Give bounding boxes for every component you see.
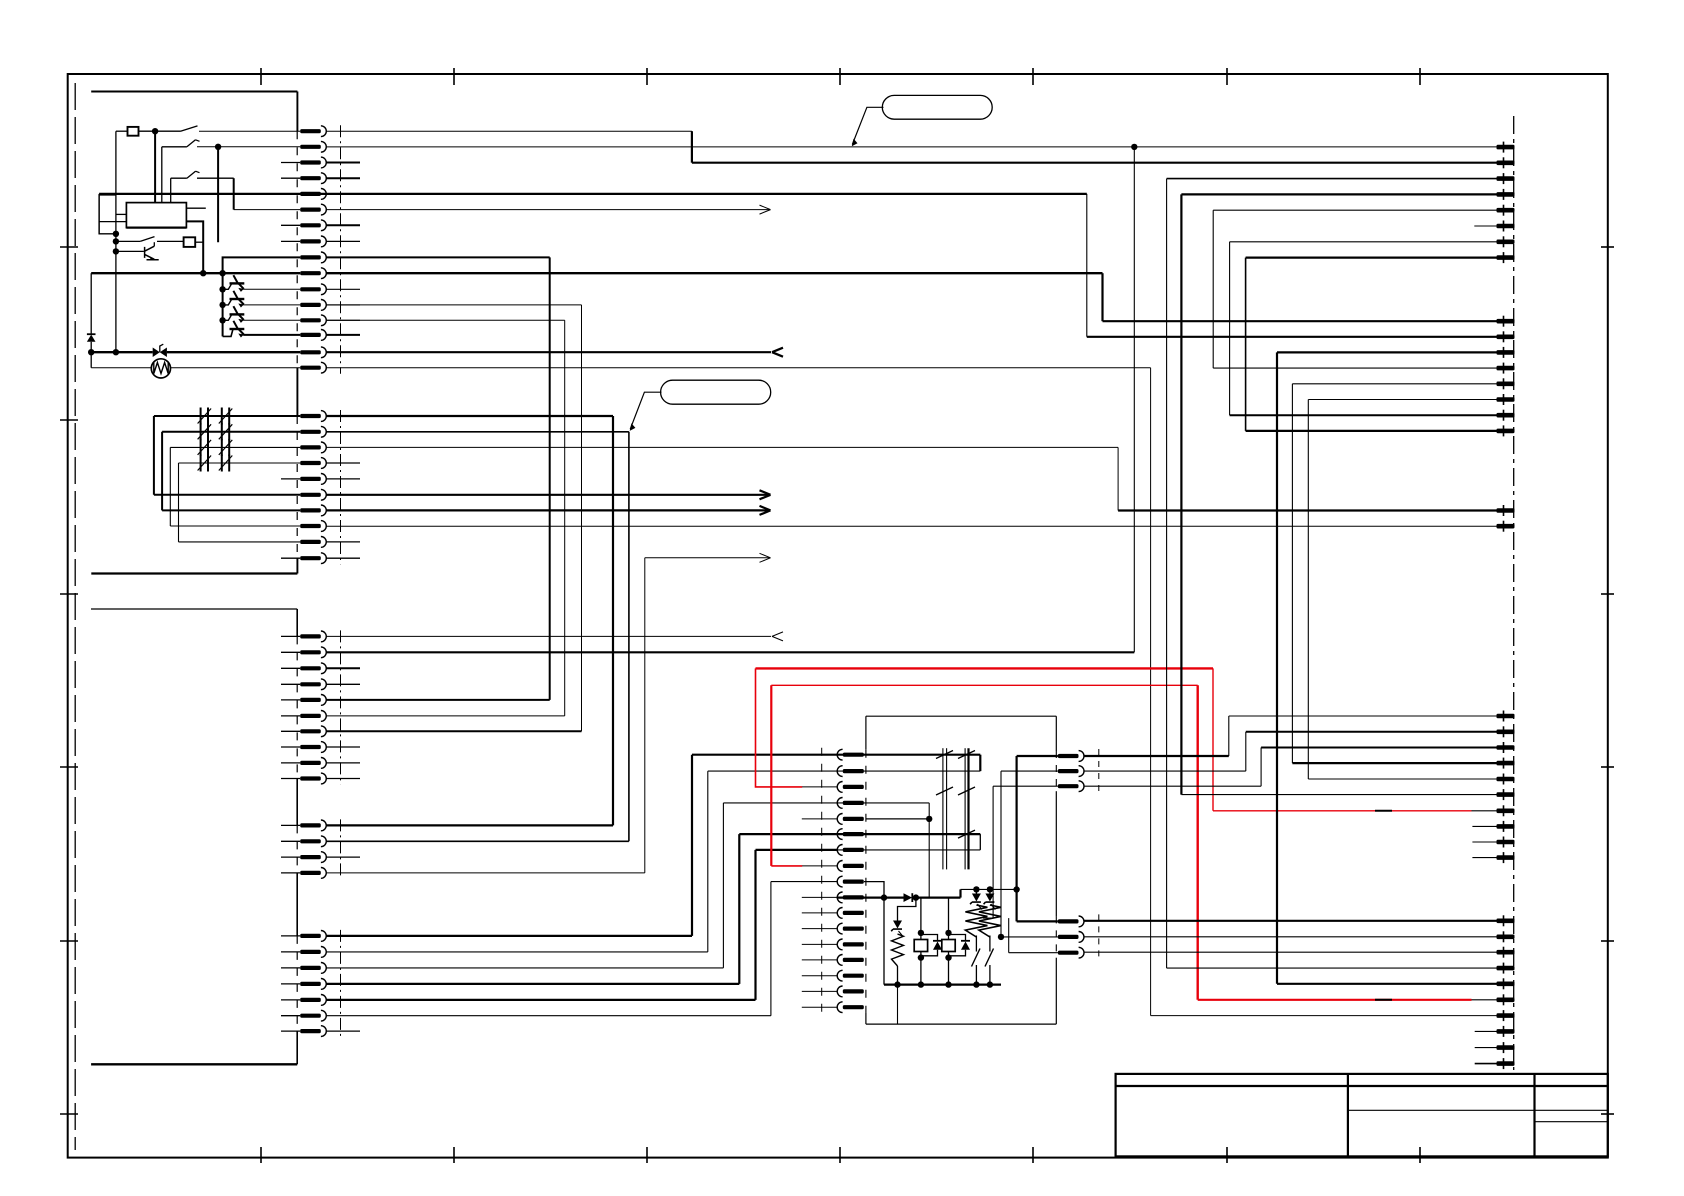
wire stub	[281, 683, 300, 685]
connector CN3 pin 10	[300, 776, 321, 780]
wire stub thick	[326, 162, 360, 164]
junction	[152, 128, 158, 134]
junction on g1r2 line	[1131, 144, 1137, 150]
wire g1r5 thick long	[99, 193, 1087, 195]
diode D4 (flyback)	[961, 942, 970, 950]
emitter lead	[239, 329, 244, 335]
wire motor row	[91, 367, 300, 369]
connector CN5 pin 5	[300, 998, 321, 1002]
middle board connector left pin 3	[843, 785, 864, 789]
right connector B pin 10	[1497, 855, 1515, 860]
wire stub	[802, 975, 837, 977]
right connector A2 pin 1	[1497, 319, 1515, 324]
right connector A2 pin 3	[1497, 350, 1515, 355]
connector CN3 pin 8	[300, 745, 321, 749]
right connector A2 pin 2	[1497, 335, 1515, 340]
connector CN1 pin 3	[300, 160, 321, 164]
right connector C pin 4	[1497, 966, 1515, 971]
wire	[989, 936, 991, 952]
wire g4r2 to pin	[326, 840, 629, 842]
wire g4r1 to pin thick	[326, 824, 613, 826]
wire stub	[326, 304, 360, 306]
wire stub	[326, 762, 360, 764]
wire	[920, 933, 922, 940]
wire g1r13 to vertical	[326, 319, 564, 321]
wire g5 row6 to elbow	[326, 1015, 771, 1017]
vertical A1-8 to A2-8	[1245, 258, 1247, 431]
title block right cell line 2	[1535, 1121, 1608, 1123]
connector CN1 pin 14	[300, 333, 321, 337]
right connector B pin 4	[1497, 761, 1515, 766]
wire to right-pin C5 thick	[1277, 983, 1497, 985]
relay K2 box	[914, 940, 927, 952]
wire g1r10 thick to corner	[326, 272, 1102, 274]
junction	[918, 981, 924, 987]
wire lower right pin3 lead	[1009, 952, 1058, 954]
wire vertical g4r4 up	[644, 558, 646, 873]
right connector C pin 3	[1497, 950, 1515, 955]
wire to right-pin Amid-1 (thick)	[1118, 509, 1496, 511]
wire vertical S1 to relay	[154, 131, 156, 202]
wire g2r1 thick to vertical	[326, 415, 613, 417]
wire stub	[281, 240, 300, 242]
connector CN1 pin 7	[300, 223, 321, 227]
switch S1 blade	[181, 126, 198, 131]
callout 1 leader	[852, 107, 883, 144]
board outline box1 bottom edge	[91, 572, 297, 574]
right connector A1 pin 2	[1497, 161, 1515, 166]
thick vertical R1 to lower R1	[1015, 756, 1017, 921]
right connector B pin 8	[1497, 824, 1515, 829]
wire	[975, 936, 977, 952]
wire to right-pin B6	[1181, 794, 1496, 796]
connector CN2 pin 9	[300, 540, 321, 544]
right connector B pin 5	[1497, 777, 1515, 782]
connector CN2 pin 4	[300, 461, 321, 465]
wire to right-pin A2-8 thick	[1246, 430, 1497, 432]
wire relay pin left upper	[116, 213, 127, 215]
connector CN5 pin 6	[300, 1014, 321, 1018]
wire	[155, 130, 180, 132]
wire rail bottom to Q5 base	[223, 329, 233, 336]
wire L4 drop	[928, 803, 930, 898]
wire A1-4 pin lead thick	[1181, 193, 1496, 195]
right connector A2 pin 4	[1497, 366, 1515, 371]
wire stub thick	[326, 177, 360, 179]
middle-right net R2 wire	[1001, 770, 1058, 772]
bus up to zener rail	[959, 889, 961, 897]
diode D2	[904, 893, 913, 902]
connector CN2 pin 2	[300, 430, 321, 434]
resistor R2	[979, 905, 1001, 937]
wire U to L2	[979, 755, 981, 771]
wire	[948, 958, 950, 985]
connector boundary line group5	[340, 930, 342, 1037]
wire g2r2 to vertical	[326, 431, 629, 433]
middle board connector left pin 6	[843, 832, 864, 836]
middle board right edge segments	[1055, 716, 1057, 751]
right connector A2 pin 8	[1497, 429, 1515, 434]
wire right stub C10	[1475, 1063, 1497, 1065]
wire	[169, 447, 171, 526]
connector boundary line group4	[340, 819, 342, 879]
board outline box1 top edge	[91, 91, 297, 93]
connector CN4 pin 1	[300, 823, 321, 827]
junction	[945, 954, 951, 960]
frame tick marks top	[260, 68, 262, 85]
board outline box2 top edge	[91, 608, 297, 610]
wire elbow vertical	[722, 803, 724, 968]
relay K2 vertical	[920, 898, 922, 933]
wire L9 rail to bottom bus	[864, 882, 884, 985]
board outline box1 right edge dashed (connector span group2)	[296, 416, 298, 558]
wire stub	[281, 951, 300, 953]
wire relay right stub	[186, 207, 205, 209]
inline connector pair row2 right	[221, 423, 223, 440]
middle board connector right pin 1	[1058, 754, 1079, 758]
wire to right-pin C4	[1167, 967, 1497, 969]
collector lead	[233, 321, 238, 329]
wire	[157, 240, 184, 242]
wire mid-R1 to B1	[1084, 755, 1229, 757]
connector CN5 pin 3	[300, 966, 321, 970]
switch SW2 blade	[985, 949, 994, 967]
right connector A1 pin 3	[1497, 176, 1515, 181]
slash T1	[936, 751, 953, 759]
vertical A1-3 to C4	[1166, 179, 1168, 969]
wire g1r15 thick arrow-left	[326, 351, 771, 353]
right connector C pin 6	[1497, 998, 1515, 1003]
wire group2 row4 U-link	[179, 462, 301, 464]
wire right stub B8	[1472, 825, 1496, 827]
wire triac to pin row15 (thick)	[167, 351, 300, 353]
title block header line	[1116, 1085, 1608, 1087]
wire g5 row1 to elbow	[326, 935, 692, 937]
wire A1-7 pin lead	[1230, 241, 1497, 243]
connector CN2 pin 6	[300, 493, 321, 497]
red wire B crossing tick	[1375, 999, 1392, 1001]
wire	[233, 178, 235, 209]
base lead	[223, 299, 232, 305]
wire to lower right pin2	[1001, 936, 1058, 938]
connector CN1 pin 12	[300, 303, 321, 307]
resistor R3	[892, 934, 904, 966]
junction	[945, 981, 951, 987]
relay loop bracket	[99, 195, 116, 234]
wire	[975, 889, 977, 893]
wire to right-pin C7	[1151, 1015, 1497, 1017]
wire A1-5 pin lead	[1213, 209, 1496, 211]
wire g1r5 drop to A2-2	[1086, 194, 1088, 337]
wire step right to right-pin A1-2 (thick)	[692, 162, 1497, 164]
wire elbow into middle block pin	[739, 833, 837, 835]
junction	[987, 886, 993, 892]
wire g3r5 to pin	[326, 699, 549, 701]
transistor array rail	[222, 273, 224, 336]
middle board connector right pin 3	[1058, 784, 1079, 788]
wire switch S2 to pin	[197, 146, 300, 148]
junction	[219, 286, 225, 292]
diode bus thick	[837, 896, 903, 898]
fold line left (dashed)	[74, 83, 76, 1150]
switch S3 blade	[187, 171, 196, 178]
right connector mid pin 2	[1497, 524, 1515, 529]
connector CN1 pin 4	[300, 176, 321, 180]
wire stub	[326, 462, 360, 464]
wire transistor collector	[153, 242, 155, 246]
wire mid lower R2 to C2	[1084, 936, 1496, 938]
wire stub	[281, 730, 300, 732]
wire g5 row5 to elbow	[326, 999, 755, 1001]
wire stub	[281, 778, 300, 780]
wire emitter to pin	[243, 288, 300, 290]
transistor Q1	[145, 246, 159, 260]
wire A2-6 pin lead	[1308, 399, 1496, 401]
board outline box2 right edge segments	[296, 609, 298, 636]
connector CN2 pin 3	[300, 445, 321, 449]
right connector C pin 5	[1497, 982, 1515, 987]
wire stub	[326, 557, 360, 559]
middle-right net R1 wire	[1017, 755, 1058, 757]
red wire A crossing tick	[1375, 810, 1392, 812]
wire stub	[281, 872, 300, 874]
wire stub	[326, 478, 360, 480]
junction	[219, 317, 225, 323]
connector CN1 pin 15	[300, 350, 321, 354]
wire step down	[691, 131, 693, 163]
middle board left edge segments	[865, 716, 867, 750]
connector CN4 pin 3	[300, 855, 321, 859]
emitter lead	[239, 283, 244, 289]
wire relay right lower L	[186, 221, 203, 273]
vertical	[1008, 918, 1010, 953]
wire	[90, 342, 92, 352]
wire L6 row into block (thick)	[837, 833, 980, 835]
wire R3 left	[983, 917, 993, 919]
switch S4 wire	[116, 240, 140, 242]
inline connector pair row3 left	[200, 439, 202, 456]
wire stub thick	[326, 667, 360, 669]
vertical A2-6 to B5	[1307, 400, 1309, 780]
connector boundary dashed line (middle-left)	[821, 748, 823, 1015]
junction	[113, 349, 119, 355]
wire g3r7 to pin	[326, 730, 581, 732]
wire A2-3 pin lead thick	[1277, 351, 1497, 353]
junction	[894, 981, 900, 987]
vertical R3	[992, 786, 994, 918]
wire to right-pin A2-4	[1213, 367, 1496, 369]
wire L7 row into block	[837, 849, 980, 851]
connector CN2 pin 1	[300, 414, 321, 418]
middle board connector left pin 14	[843, 958, 864, 962]
wire g1r16 motor line right	[326, 367, 1150, 369]
middle board connector left pin 7	[843, 848, 864, 852]
right connector C pin 10	[1497, 1061, 1515, 1066]
title block outline	[1116, 1074, 1608, 1157]
middle board connector right lower pin 1	[1058, 919, 1079, 923]
wire	[920, 958, 922, 985]
wire arrow from g4r4	[645, 557, 771, 559]
right connector A1 pin 5	[1497, 208, 1515, 213]
wire	[178, 463, 180, 542]
wire L6-L7 link	[979, 834, 981, 850]
wire elbow vertical	[754, 850, 756, 1000]
connector CN3 pin 1	[300, 634, 321, 638]
wire to right-pin A2-2 (thick)	[1087, 336, 1497, 338]
wire	[98, 194, 100, 234]
connector boundary dashed (middle-right lower)	[1098, 914, 1100, 959]
wire g4r4 to vertical	[326, 872, 644, 874]
main thick horizontal wire	[91, 272, 300, 274]
zener diode Z2	[985, 894, 994, 902]
board outline box1 right edge solid between groups	[296, 368, 298, 416]
wire stub	[802, 959, 837, 961]
wire g1r6 arrow	[326, 209, 770, 211]
right connector A1 pin 7	[1497, 240, 1515, 245]
junction	[113, 231, 119, 237]
wire vertical g2r2 to g4r2	[628, 432, 630, 842]
inline connector pair row3 right	[221, 439, 223, 456]
frame tick marks bottom	[260, 1147, 262, 1163]
wire	[949, 950, 966, 956]
connector CN5 pin 7	[300, 1029, 321, 1033]
wire right stub B9	[1472, 841, 1496, 843]
wire stub	[802, 896, 837, 898]
wire stub	[802, 990, 837, 992]
slash T2 row6	[958, 830, 975, 838]
inline connector pair row4 left	[200, 455, 202, 472]
right connector B pin 3	[1497, 745, 1515, 750]
wire mid-R3 to B3	[1084, 785, 1261, 787]
wire right stub C9	[1475, 1047, 1497, 1049]
connector CN1 pin 10	[300, 271, 321, 275]
wire g2r6 arrow thick	[326, 494, 770, 496]
wire stub	[326, 541, 360, 543]
wire stub	[326, 856, 360, 858]
wire stub	[802, 928, 837, 930]
switch S1 actuator square	[128, 127, 139, 136]
right connector A1 pin 4	[1497, 192, 1515, 197]
title block middle cell line	[1348, 1109, 1535, 1111]
wire stub	[802, 943, 837, 945]
wire	[116, 130, 128, 132]
wire	[989, 965, 991, 985]
transistor Q5 base bar	[230, 328, 245, 330]
switch S4 square	[184, 237, 196, 247]
right connector B pin 1	[1497, 714, 1515, 719]
connector boundary line group1	[340, 125, 342, 374]
wire stub	[281, 1015, 300, 1017]
wire right stub A1-6	[1474, 225, 1496, 227]
wire stub	[802, 818, 837, 820]
right connector A1 pin 6	[1497, 224, 1515, 229]
connector boundary line group3	[340, 630, 342, 784]
middle board connector left pin 11	[843, 911, 864, 915]
zener diode Z3	[893, 921, 902, 929]
connector CN1 pin 13	[300, 318, 321, 322]
connector CN1 pin 8	[300, 239, 321, 243]
junction	[998, 934, 1004, 940]
red wire A black segment near pin	[1472, 810, 1497, 812]
collector lead	[233, 275, 238, 283]
wire elbow vertical	[707, 771, 709, 952]
board outline box1 right edge dashed (connector span group1)	[296, 131, 298, 368]
callout 2 leader	[630, 392, 661, 429]
connector CN1 pin 9	[300, 255, 321, 259]
connector CN5 pin 2	[300, 950, 321, 954]
wire stub	[802, 912, 837, 914]
red wire B black segment near pin	[1472, 999, 1497, 1001]
wire stub	[281, 635, 300, 637]
triac V1 bowtie	[153, 348, 160, 358]
connector CN1 pin 5	[300, 192, 321, 196]
wire	[921, 935, 938, 941]
vertical A1-5 to A2-4	[1212, 210, 1214, 368]
switch S3 lead	[170, 178, 172, 202]
junction	[945, 930, 951, 936]
transistor Q4 base bar	[230, 313, 245, 315]
wire mid lower R3 to C3	[1084, 951, 1496, 953]
wire g2r3 long	[326, 446, 1118, 448]
wire stub thick	[326, 224, 360, 226]
wire relay pin left lower	[99, 221, 126, 223]
wire stub	[326, 683, 360, 685]
wire step down	[1117, 447, 1119, 510]
bus vertical from junction down to g3r2	[1133, 147, 1135, 652]
connector CN2 pin 5	[300, 477, 321, 481]
wire g1r9 to vertical	[326, 256, 549, 258]
middle board connector left pin 4	[843, 801, 864, 805]
connector CN1 pin 2	[300, 145, 321, 149]
wire switch S1 to pin	[199, 130, 300, 132]
connector CN3 pin 4	[300, 682, 321, 686]
vertical rail	[115, 131, 117, 352]
wire stub	[281, 699, 300, 701]
wire L4 row into block	[837, 802, 929, 804]
wire elbow into middle block pin	[771, 881, 837, 883]
wire group2 row3 U-link	[170, 446, 300, 448]
wire	[921, 950, 938, 956]
connector CN4 pin 2	[300, 839, 321, 843]
connector CN5 pin 1	[300, 934, 321, 938]
bottom bus thick	[884, 983, 1001, 985]
wire elbow into middle block pin	[692, 754, 837, 756]
middle board connector left pin 10	[843, 895, 864, 899]
wire stub	[281, 824, 300, 826]
wire	[90, 352, 92, 368]
wire right stub C8	[1475, 1030, 1497, 1032]
title block divider 2	[1533, 1074, 1535, 1157]
wire stub	[281, 651, 300, 653]
wire stub	[326, 1030, 360, 1032]
middle board connector left pin 2	[843, 769, 864, 773]
wire elbow vertical	[770, 882, 772, 1016]
wire stub	[281, 715, 300, 717]
wire	[920, 952, 922, 958]
connector CN3 pin 6	[300, 714, 321, 718]
wire mid-R2 to B2	[1084, 770, 1246, 772]
diode D1	[90, 273, 92, 334]
wire L to pin row9	[223, 257, 301, 273]
middle board connector left pin 9	[843, 880, 864, 884]
right connector mid pin 1	[1497, 508, 1515, 513]
connector CN2 pin 10	[300, 556, 321, 560]
wire stub	[802, 1006, 837, 1008]
wire g3r1 arrow-left	[326, 635, 771, 637]
wire emitter to pin	[243, 319, 300, 321]
right connector A2 pin 5	[1497, 382, 1515, 387]
wire stub	[326, 746, 360, 748]
